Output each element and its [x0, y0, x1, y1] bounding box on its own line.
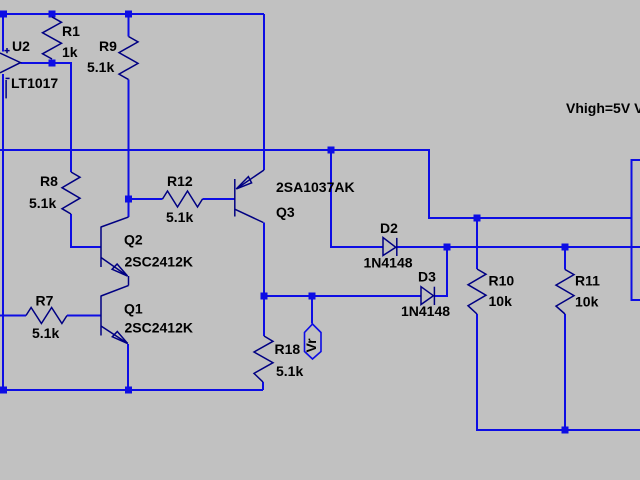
svg-text:5.1k: 5.1k — [276, 363, 303, 379]
svg-text:5.1k: 5.1k — [32, 325, 59, 341]
svg-text:2SC2412K: 2SC2412K — [125, 254, 194, 270]
svg-text:R10: R10 — [489, 273, 515, 289]
svg-text:5.1k: 5.1k — [166, 209, 193, 225]
svg-text:R11: R11 — [575, 273, 600, 289]
svg-text:R12: R12 — [167, 173, 193, 189]
svg-text:U2: U2 — [12, 38, 30, 54]
svg-text:10k: 10k — [489, 293, 513, 309]
svg-text:D2: D2 — [380, 220, 398, 236]
svg-text:1N4148: 1N4148 — [364, 255, 413, 271]
svg-text:1N4148: 1N4148 — [401, 303, 450, 319]
svg-text:5.1k: 5.1k — [29, 195, 56, 211]
svg-text:10k: 10k — [575, 294, 599, 310]
svg-text:R7: R7 — [36, 293, 54, 309]
svg-text:D3: D3 — [418, 269, 436, 285]
svg-text:R9: R9 — [99, 38, 117, 54]
svg-text:R1: R1 — [62, 23, 80, 39]
svg-text:Vr: Vr — [303, 338, 319, 353]
svg-text:2SC2412K: 2SC2412K — [125, 320, 194, 336]
svg-text:LT1017: LT1017 — [11, 75, 58, 91]
svg-text:R8: R8 — [40, 173, 58, 189]
svg-text:2SA1037AK: 2SA1037AK — [276, 179, 355, 195]
svg-text:R18: R18 — [275, 341, 301, 357]
svg-text:Q3: Q3 — [276, 204, 295, 220]
svg-text:Vhigh=5V V: Vhigh=5V V — [566, 100, 640, 116]
svg-text:Q1: Q1 — [124, 301, 143, 317]
svg-text:Q2: Q2 — [124, 232, 143, 248]
svg-text:1k: 1k — [62, 44, 78, 60]
svg-text:5.1k: 5.1k — [87, 59, 114, 75]
